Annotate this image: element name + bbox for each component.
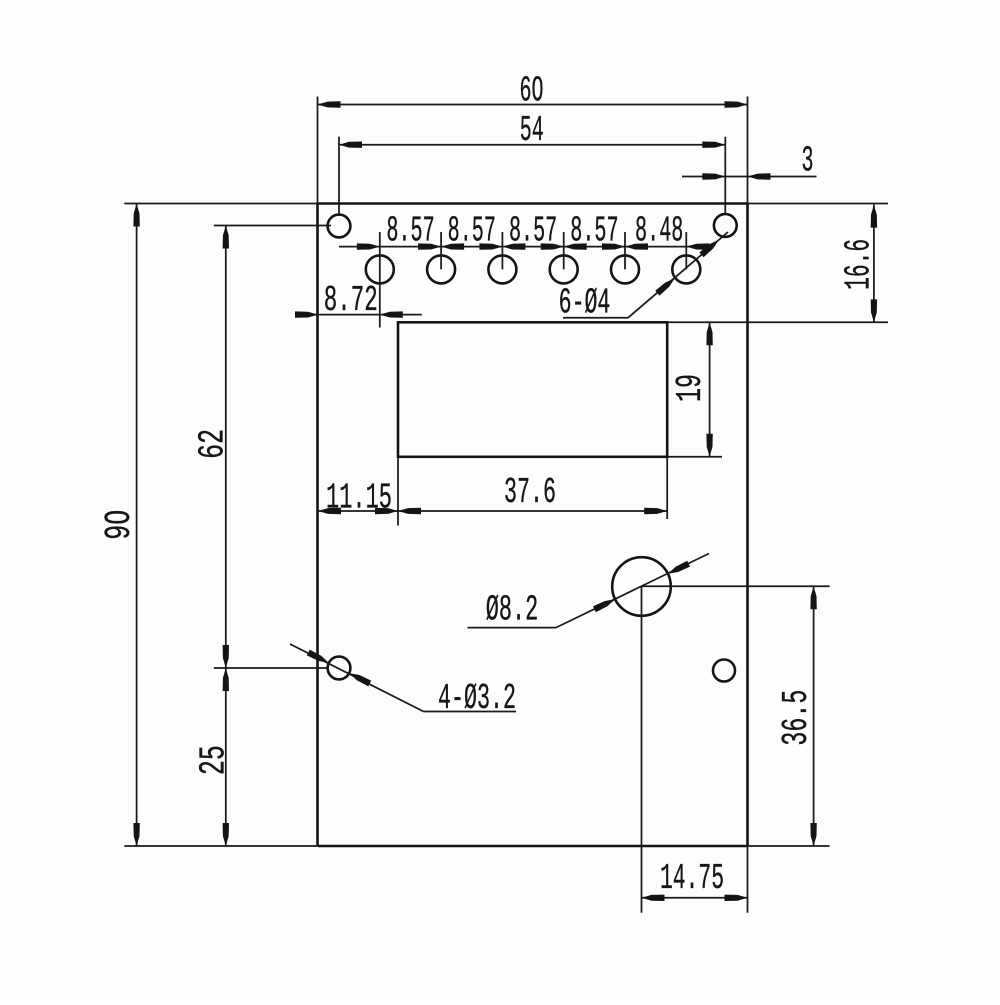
- small hole left extension line: [214, 667, 328, 669]
- svg-text:8.57: 8.57: [448, 211, 496, 252]
- plate left edge: [317, 97, 319, 847]
- hole B extension up: [724, 137, 726, 214]
- hole A left extension: [214, 225, 331, 227]
- dimension 25: [193, 668, 234, 846]
- big hole horizontal extension: [642, 585, 830, 587]
- svg-text:4-Ø3.2: 4-Ø3.2: [438, 678, 516, 719]
- dimension 36.5: [776, 586, 817, 846]
- dimension 54: [339, 110, 725, 151]
- svg-text:8.57: 8.57: [509, 211, 557, 252]
- svg-text:Ø8.2: Ø8.2: [486, 590, 539, 631]
- svg-text:8.57: 8.57: [570, 211, 618, 252]
- rectangular cutout: [398, 322, 667, 457]
- dimension 62: [192, 226, 233, 669]
- hole A top-left: [328, 215, 351, 238]
- plate right edge: [747, 97, 749, 913]
- hole A extension up: [338, 137, 340, 215]
- svg-text:54: 54: [520, 110, 544, 151]
- svg-text:36.5: 36.5: [776, 690, 817, 746]
- dimension 90: [99, 204, 140, 847]
- svg-text:19: 19: [670, 374, 711, 402]
- rect right lower extension: [666, 457, 668, 519]
- rect bottom extension line: [667, 456, 722, 458]
- big hole O8.2: [612, 557, 671, 616]
- svg-text:8.57: 8.57: [386, 211, 434, 252]
- small hole left 4-O3.2: [328, 657, 351, 680]
- dimension line 11.15 and 37.6: [318, 472, 667, 519]
- dimension 60: [318, 71, 748, 112]
- svg-text:62: 62: [192, 429, 233, 459]
- svg-text:14.75: 14.75: [660, 858, 724, 899]
- plate top edge with extensions: [124, 203, 888, 205]
- dimension 3: [682, 141, 817, 182]
- labels 8.57 x4 and 8.48: [386, 211, 683, 252]
- dimension 19: [670, 322, 713, 457]
- dimension 14.75: [642, 858, 748, 901]
- svg-text:6O: 6O: [520, 71, 544, 112]
- chained dimension line 8.57 row: [339, 243, 714, 249]
- dimension 8.72: [295, 280, 422, 321]
- leader O8.2: [468, 554, 710, 631]
- plate bottom edge with extensions: [124, 845, 829, 847]
- svg-text:25: 25: [193, 745, 234, 775]
- svg-text:16.6: 16.6: [838, 239, 879, 290]
- big hole vertical extension: [641, 587, 643, 913]
- rect left lower extension: [397, 457, 399, 526]
- tick extension lines through holes: [380, 232, 687, 328]
- dimension 16.6: [838, 205, 879, 323]
- svg-text:3: 3: [802, 141, 814, 182]
- svg-text:37.6: 37.6: [504, 472, 556, 513]
- small hole bottom right: [713, 660, 735, 682]
- leader 4-O3.2: [290, 644, 516, 719]
- svg-text:11.15: 11.15: [326, 478, 392, 519]
- rect top extension line: [667, 321, 888, 323]
- svg-text:8.72: 8.72: [324, 280, 378, 321]
- svg-text:8.48: 8.48: [635, 211, 683, 252]
- leader 6-O4: [559, 232, 728, 323]
- svg-text:9O: 9O: [99, 510, 140, 540]
- row of six holes 6-O4: [366, 255, 701, 283]
- hole B top-right: [714, 214, 737, 237]
